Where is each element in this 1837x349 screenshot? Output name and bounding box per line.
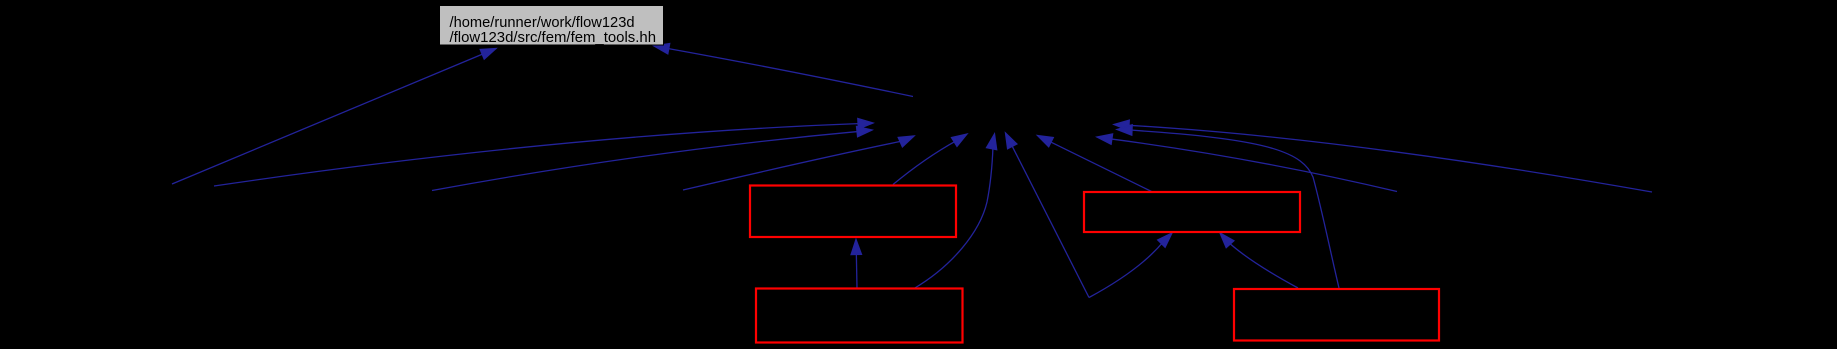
node box R1 (red) (750, 186, 956, 238)
edge E7 (914, 134, 997, 289)
edge E5 (683, 136, 914, 190)
edge E15 (1220, 233, 1298, 288)
edge E10 (1114, 120, 1652, 192)
edge E6 (893, 134, 967, 185)
edge E14 (1089, 233, 1172, 298)
edge E1 (172, 49, 496, 185)
node fem_tools.hh (grey) (440, 6, 664, 47)
edge E3 (214, 119, 873, 187)
node box R2 (red) (1084, 192, 1300, 232)
node box R3 (red) (756, 289, 963, 343)
edge E2 (654, 44, 913, 97)
node box R4 (red) (1234, 289, 1439, 341)
svg-text:/flow123d/src/fem/fem_tools.hh: /flow123d/src/fem/fem_tools.hh (450, 30, 657, 46)
edge E9 (1038, 136, 1152, 192)
edge E8 (1006, 133, 1090, 298)
edge E12 (1117, 125, 1339, 288)
edge E13 (851, 240, 861, 289)
edge E11 (1097, 134, 1397, 192)
edge E4 (432, 127, 872, 191)
svg-text:/home/runner/work/flow123d: /home/runner/work/flow123d (450, 15, 635, 31)
